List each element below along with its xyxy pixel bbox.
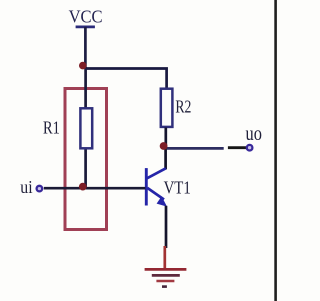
svg-text:uo: uo [246, 124, 262, 145]
svg-text:R2: R2 [175, 96, 191, 116]
svg-text:R1: R1 [43, 117, 60, 137]
svg-text:VCC: VCC [69, 7, 103, 27]
svg-text:VT1: VT1 [164, 178, 191, 198]
svg-text:ui: ui [20, 177, 32, 197]
